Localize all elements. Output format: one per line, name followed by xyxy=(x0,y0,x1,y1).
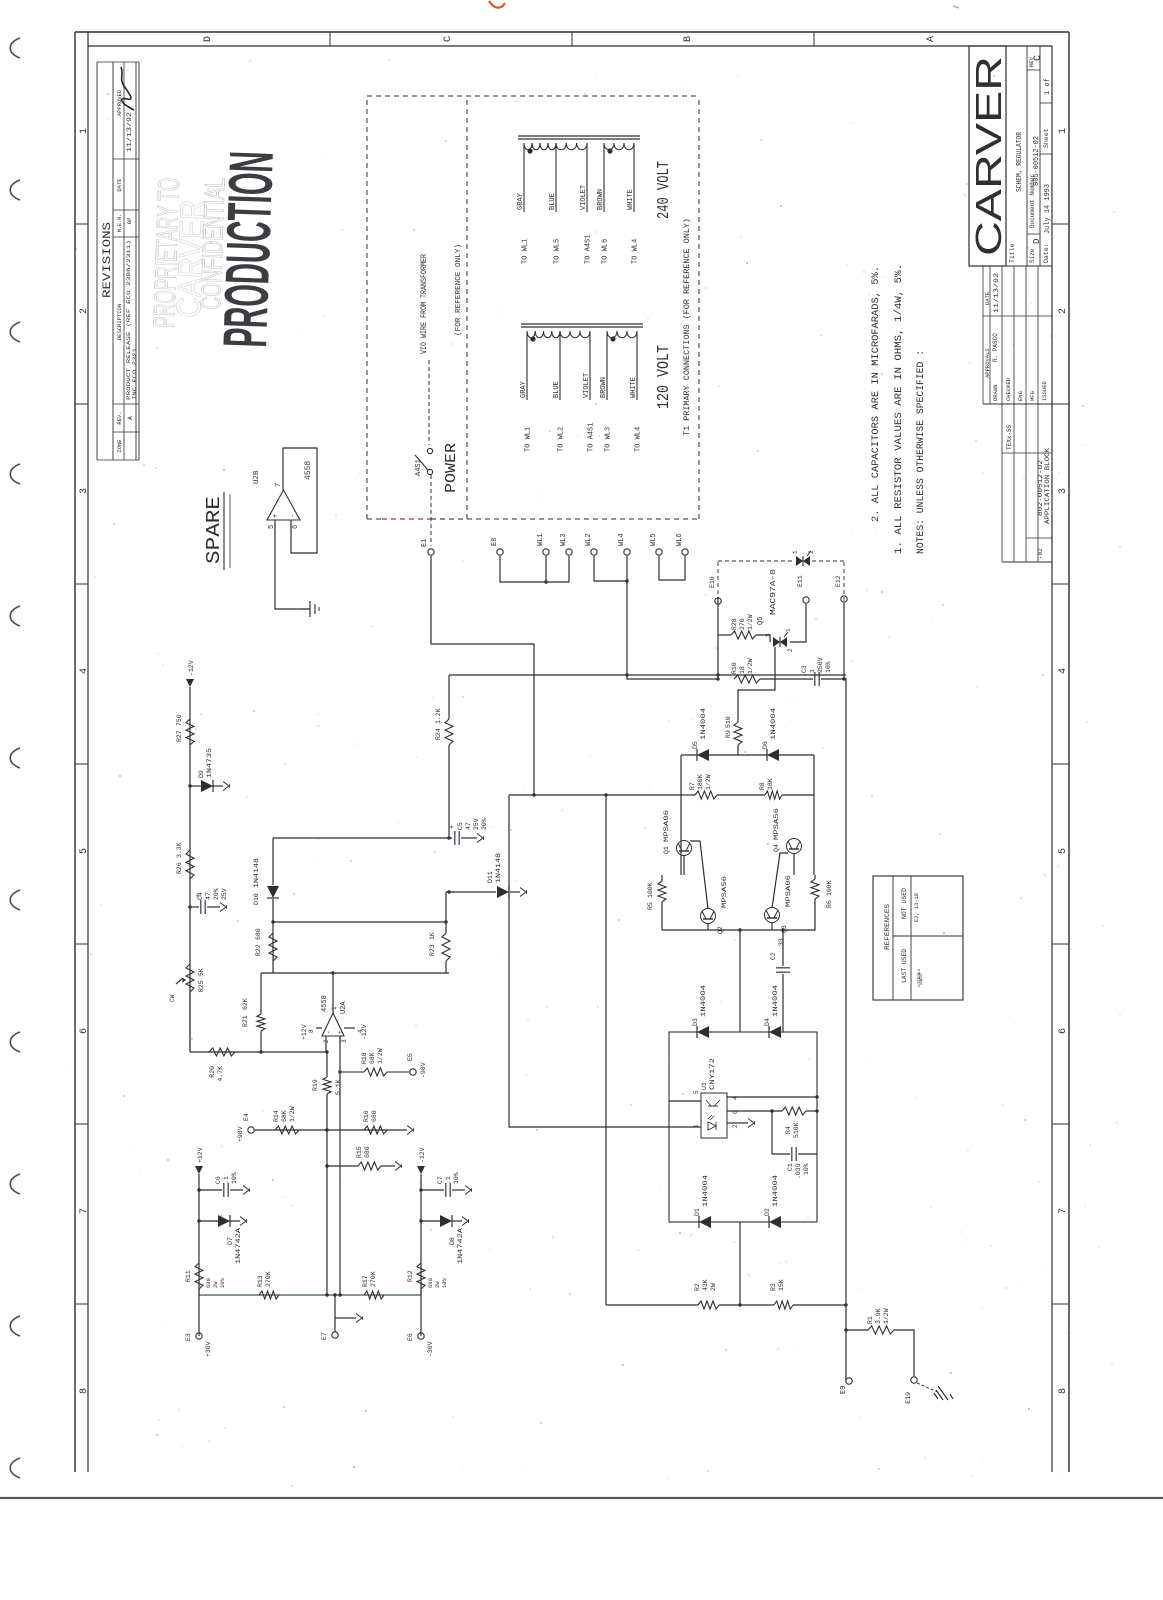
svg-text:1N4004: 1N4004 xyxy=(772,985,779,1017)
svg-text:REFERENCES: REFERENCES xyxy=(884,904,891,950)
svg-text:NOT USED: NOT USED xyxy=(901,888,908,919)
svg-text:D10: D10 xyxy=(253,893,260,905)
diode D5 1N4004 xyxy=(697,749,709,761)
svg-text:802-00512-02: 802-00512-02 xyxy=(1037,459,1044,516)
svg-text:T1 PRIMARY CONNECTIONS (FOR RE: T1 PRIMARY CONNECTIONS (FOR REFERENCE ON… xyxy=(683,218,692,436)
capacitor C4 47 20% 25V xyxy=(188,905,191,908)
svg-text:R21: R21 xyxy=(242,1015,249,1027)
svg-text:10%: 10% xyxy=(441,1277,448,1288)
wire bridge negative to R2 R3 node xyxy=(739,1222,741,1305)
svg-text:8: 8 xyxy=(1058,1388,1069,1394)
svg-text:47: 47 xyxy=(205,892,212,900)
svg-text:10%: 10% xyxy=(219,1277,226,1288)
svg-text:6: 6 xyxy=(1058,1028,1069,1034)
svg-text:1 of: 1 of xyxy=(1044,78,1052,95)
approved signature squiggle xyxy=(121,67,134,110)
svg-text:2W: 2W xyxy=(710,1283,717,1291)
wires transistor interconnect xyxy=(683,855,685,875)
svg-text:WHITE: WHITE xyxy=(627,189,635,210)
svg-text:E10: E10 xyxy=(709,576,716,588)
svg-text:1: 1 xyxy=(792,550,799,554)
svg-text:1: 1 xyxy=(1058,128,1069,134)
svg-text:R1: R1 xyxy=(867,1316,874,1324)
resistor R8 18K xyxy=(717,794,765,796)
svg-text:REVISIONS: REVISIONS xyxy=(102,222,114,298)
approvals block xyxy=(983,266,1052,404)
diode D4 1N4004 xyxy=(769,1026,781,1038)
svg-text:680: 680 xyxy=(364,1146,371,1158)
svg-text:5.1K: 5.1K xyxy=(335,1079,342,1095)
wire WL4 to R10 node xyxy=(627,581,718,679)
svg-text:1N4004: 1N4004 xyxy=(700,985,707,1017)
svg-text:APPLICATION BLOCK: APPLICATION BLOCK xyxy=(1044,448,1051,524)
svg-text:BLUE: BLUE xyxy=(549,193,557,210)
svg-text:R8: R8 xyxy=(759,782,766,790)
svg-text:MPSA56: MPSA56 xyxy=(773,808,780,840)
wire E12 bottom bus xyxy=(843,603,845,679)
zener D7 1N4742A xyxy=(197,1219,200,1222)
dashed wire from transformer note to switch xyxy=(428,360,430,445)
svg-text:R14: R14 xyxy=(273,1110,280,1122)
title block Date row xyxy=(1040,46,1052,266)
svg-text:U1: U1 xyxy=(701,1082,708,1090)
svg-text:U2B: U2B xyxy=(253,470,261,484)
svg-text:(FOR REFERENCE ONLY): (FOR REFERENCE ONLY) xyxy=(455,244,463,336)
terminal WL4 xyxy=(624,549,630,555)
terminal E9 xyxy=(846,1378,852,1384)
svg-text:REV.: REV. xyxy=(116,411,123,424)
svg-text:D8: D8 xyxy=(449,1237,456,1245)
svg-text:R3: R3 xyxy=(770,1283,777,1291)
svg-text:CARVER: CARVER xyxy=(968,56,1009,256)
svg-text:3.3K: 3.3K xyxy=(176,842,183,858)
svg-text:Title: Title xyxy=(1009,243,1016,263)
svg-text:1/2W: 1/2W xyxy=(747,658,754,674)
svg-text:C: C xyxy=(1033,55,1044,61)
svg-text:250V: 250V xyxy=(817,657,824,673)
wire pot to R20 top xyxy=(189,992,191,1052)
svg-text:7: 7 xyxy=(1058,1208,1069,1214)
resistor R16 680 xyxy=(364,1126,387,1134)
svg-text:47: 47 xyxy=(465,822,472,830)
resistor R9 510 xyxy=(737,745,739,755)
svg-text:C2: C2 xyxy=(770,952,777,960)
svg-text:2: 2 xyxy=(732,1124,739,1128)
transistor Q2 MPSA56 xyxy=(701,909,716,924)
resistor R1 3.9K 1/2W xyxy=(846,1329,868,1331)
svg-text:+: + xyxy=(272,514,280,518)
wire WL5 WL6 join xyxy=(659,556,685,580)
svg-text:APPROVALS: APPROVALS xyxy=(984,348,991,378)
wire phase detector feed xyxy=(509,794,681,796)
svg-text:6: 6 xyxy=(292,525,300,529)
application block xyxy=(1002,404,1052,562)
svg-text:TO WL1: TO WL1 xyxy=(525,427,533,452)
svg-text:510: 510 xyxy=(725,716,732,728)
row R11 R13 E7 R17 R12 main low rail xyxy=(199,1294,421,1296)
svg-text:WHITE: WHITE xyxy=(630,377,638,398)
svg-text:100K: 100K xyxy=(826,880,833,896)
svg-text:+: + xyxy=(337,1030,344,1034)
diode D2 1N4004 xyxy=(769,1216,781,1228)
svg-text:+30V: +30V xyxy=(205,1341,212,1357)
resistor R28 270 1/2W xyxy=(718,634,731,636)
svg-text:D: D xyxy=(1032,239,1042,244)
op-amp U2A 4558 xyxy=(321,995,348,1043)
resistor R13 270K xyxy=(259,1291,279,1299)
optocoupler U1 CNY172 xyxy=(693,1058,739,1138)
svg-text:MPSA06: MPSA06 xyxy=(663,810,670,842)
svg-text:E9: E9 xyxy=(840,1386,848,1394)
resistor R7 180K 1/2W xyxy=(681,794,695,796)
transistor Q3 MPSA06 xyxy=(765,908,780,923)
resistor R14 68K 1/2W xyxy=(275,1126,299,1134)
wire R22 R23 tie xyxy=(273,921,446,923)
dashed divider line xyxy=(466,96,468,519)
svg-text:MPSA56: MPSA56 xyxy=(721,876,728,908)
resistor R21 62K xyxy=(260,1031,262,1052)
svg-text:1: 1 xyxy=(79,128,90,134)
svg-text:3.9K: 3.9K xyxy=(875,1308,882,1324)
svg-text:.1: .1 xyxy=(223,1176,230,1184)
svg-text:GRAY: GRAY xyxy=(517,192,525,210)
svg-text:.33: .33 xyxy=(778,938,785,950)
svg-text:CW: CW xyxy=(169,994,176,1002)
terminal E7 with ground xyxy=(334,1295,336,1332)
svg-text:WL5: WL5 xyxy=(650,533,658,546)
resistor R12 680 2W 10% xyxy=(417,1263,425,1289)
title block CARVER logo box xyxy=(968,46,1009,266)
wire R20 R21 node column xyxy=(190,1051,327,1053)
sheet border right outer edge xyxy=(75,31,1069,33)
svg-text:62K: 62K xyxy=(242,998,249,1010)
svg-text:+12V: +12V xyxy=(301,1024,308,1040)
svg-text:E6: E6 xyxy=(407,1333,414,1341)
svg-text:2: 2 xyxy=(808,550,815,554)
resistor R20 4.7K xyxy=(209,1048,235,1056)
svg-text:R5: R5 xyxy=(647,902,654,910)
svg-text:10%: 10% xyxy=(231,1172,238,1184)
svg-text:LAST USED: LAST USED xyxy=(901,949,908,983)
svg-text:CHECKED: CHECKED xyxy=(1005,377,1012,401)
svg-text:180K: 180K xyxy=(697,774,704,790)
sheet border inner top edge xyxy=(87,32,89,1472)
svg-text:D6: D6 xyxy=(762,741,769,749)
svg-text:TO WL6: TO WL6 xyxy=(602,239,610,264)
svg-text:-98V: -98V xyxy=(420,1062,427,1078)
svg-text:A: A xyxy=(127,416,134,420)
svg-text:E19: E19 xyxy=(905,1392,912,1404)
transformer core xyxy=(518,138,640,140)
op-amp U2B spare 4558 xyxy=(253,448,317,553)
wire feedback node column xyxy=(261,972,449,974)
svg-text:PRODUCTION: PRODUCTION xyxy=(211,150,287,348)
sheet border bottom inner edge xyxy=(1051,46,1053,1472)
svg-text:1N4742A: 1N4742A xyxy=(235,1228,242,1264)
terminal E10 xyxy=(715,598,721,604)
svg-text:20%: 20% xyxy=(481,818,488,830)
svg-text:July 14 1993: July 14 1993 xyxy=(1044,184,1052,234)
svg-text:R17: R17 xyxy=(362,1275,369,1287)
svg-text:4: 4 xyxy=(79,668,90,674)
sheet border bottom outer edge xyxy=(1068,32,1070,1472)
svg-text:10%: 10% xyxy=(825,661,832,673)
svg-text:-30V: -30V xyxy=(427,1341,434,1357)
ground after R16 xyxy=(401,1129,407,1131)
svg-text:Date:: Date: xyxy=(1043,243,1050,263)
svg-text:Sheet: Sheet xyxy=(1043,128,1050,148)
svg-text:1/2W: 1/2W xyxy=(377,1048,384,1064)
capacitor C6 .1 10% xyxy=(197,1188,200,1191)
terminal E19 xyxy=(911,1377,917,1383)
terminal E5 -98V xyxy=(410,1069,416,1075)
svg-text:Q5: Q5 xyxy=(757,617,765,625)
wire E10 column xyxy=(717,597,719,679)
wire long run to U1 pin1 xyxy=(509,795,701,1127)
svg-text:R. PASCO: R. PASCO xyxy=(992,333,999,362)
svg-text:-12V: -12V xyxy=(188,660,195,676)
svg-text:VIO WIRE FROM TRANSFORMER: VIO WIRE FROM TRANSFORMER xyxy=(420,254,429,354)
terminal WL5 xyxy=(656,549,662,555)
triac Q5 MAC97A-8 xyxy=(773,637,780,647)
notes text block xyxy=(871,264,927,554)
svg-text:MAC97A-8: MAC97A-8 xyxy=(770,569,778,615)
svg-text:18K: 18K xyxy=(767,778,774,790)
wire non-inverting pin3 net xyxy=(339,1036,341,1042)
diode D9 1N4735 xyxy=(188,784,191,787)
svg-text:R23: R23 xyxy=(429,944,436,956)
svg-text:4558: 4558 xyxy=(321,995,329,1012)
wire top tie row xyxy=(272,932,274,934)
svg-text:R12: R12 xyxy=(407,1270,414,1282)
svg-text:1/2W: 1/2W xyxy=(705,774,712,790)
svg-text:1: 1 xyxy=(785,628,792,632)
transformer core xyxy=(521,326,643,328)
wire U2B pin5 to ground xyxy=(275,520,310,609)
transistor Q4 MPSA56 xyxy=(787,839,802,854)
wire E8 WL1 WL3 bus xyxy=(500,556,569,582)
dashed enclosure power switch and T1 connections xyxy=(367,96,699,519)
svg-text:WL3: WL3 xyxy=(560,533,568,546)
svg-text:R24: R24 xyxy=(435,728,442,740)
revisions table xyxy=(97,62,139,460)
svg-text:INC ECO 2321: INC ECO 2321 xyxy=(132,348,138,400)
svg-text:1N4742A: 1N4742A xyxy=(457,1228,464,1264)
svg-text:R22: R22 xyxy=(255,944,262,956)
svg-text:TO A4S1: TO A4S1 xyxy=(585,235,593,264)
svg-text:VIOLET: VIOLET xyxy=(583,373,591,398)
svg-text:C4: C4 xyxy=(197,892,204,900)
svg-text:4: 4 xyxy=(1058,668,1069,674)
terminal E1 and dashed feed xyxy=(430,475,432,546)
transformer windings xyxy=(527,331,535,338)
svg-text:4: 4 xyxy=(357,1029,364,1033)
-12V rail R12 column xyxy=(420,1174,422,1295)
svg-text:R25: R25 xyxy=(198,980,205,992)
svg-text:680: 680 xyxy=(427,1278,434,1288)
transformer windings xyxy=(524,143,532,150)
svg-text:-02: -02 xyxy=(1037,548,1044,559)
dashed box E10 E11 E12 xyxy=(718,561,844,601)
terminal E4 +98V xyxy=(248,1127,254,1133)
terminal E3 +30V xyxy=(198,1289,200,1336)
terminal E11 xyxy=(803,597,809,603)
terminal E12 xyxy=(841,596,847,602)
svg-text:WL2: WL2 xyxy=(585,533,593,546)
wire E1 feed down to phase detector row xyxy=(431,556,534,795)
sheet border outer top edge xyxy=(74,32,76,1472)
svg-text:TO WL1: TO WL1 xyxy=(522,239,530,264)
svg-text:R20: R20 xyxy=(209,1066,216,1078)
svg-text:C: C xyxy=(443,36,454,42)
svg-text:11/13/92: 11/13/92 xyxy=(993,272,1000,313)
svg-text:18: 18 xyxy=(739,666,746,674)
svg-text:68K: 68K xyxy=(369,1052,376,1064)
svg-text:MPSA06: MPSA06 xyxy=(785,875,792,907)
svg-text:7: 7 xyxy=(79,1208,90,1214)
svg-text:120 VOLT: 120 VOLT xyxy=(655,345,674,409)
svg-text:680: 680 xyxy=(371,1110,378,1122)
svg-text:10%: 10% xyxy=(803,1163,810,1175)
svg-text:E3: E3 xyxy=(185,1333,192,1341)
svg-text:TO WL5: TO WL5 xyxy=(554,239,562,264)
capacitor C3 1 250V 10% xyxy=(760,678,813,680)
resistor R17 270K xyxy=(364,1291,384,1299)
svg-text:5K: 5K xyxy=(198,968,205,976)
svg-text:1/2W: 1/2W xyxy=(289,1106,296,1122)
svg-text:1N4148: 1N4148 xyxy=(495,853,502,883)
svg-text:D11: D11 xyxy=(487,871,494,883)
svg-text:ENG: ENG xyxy=(1017,391,1024,401)
diode D3 1N4004 xyxy=(697,1026,709,1038)
svg-text:270K: 270K xyxy=(370,1271,377,1287)
svg-text:TO WL4: TO WL4 xyxy=(632,239,640,264)
svg-text:Q1: Q1 xyxy=(663,846,670,854)
references table xyxy=(873,876,963,1000)
transistor Q1 MPSA06 xyxy=(677,841,692,856)
svg-text:1N4004: 1N4004 xyxy=(700,708,707,740)
svg-text:WL4: WL4 xyxy=(917,969,921,975)
svg-text:3: 3 xyxy=(79,488,90,494)
svg-text:-12V: -12V xyxy=(419,1147,426,1163)
svg-text:C6: C6 xyxy=(215,1176,222,1184)
svg-text:-: - xyxy=(325,1030,332,1034)
svg-text:1N4004: 1N4004 xyxy=(772,1175,779,1207)
svg-text:1: 1 xyxy=(809,669,816,673)
terminal WL6 xyxy=(682,549,688,555)
svg-text:270: 270 xyxy=(739,618,746,630)
svg-text:DRAWN: DRAWN xyxy=(992,384,999,401)
svg-text:R4: R4 xyxy=(785,1126,792,1134)
svg-text:270K: 270K xyxy=(265,1271,272,1287)
terminal WL3 xyxy=(566,549,572,555)
resistor R2 43K 2W xyxy=(606,1304,698,1306)
svg-text:DATE: DATE xyxy=(984,291,991,305)
svg-text:C7: C7 xyxy=(437,1176,444,1184)
svg-text:1N4004: 1N4004 xyxy=(770,708,777,740)
capacitor C7 .1 10% xyxy=(419,1188,422,1191)
svg-text:2: 2 xyxy=(79,308,90,314)
diode D1 1N4004 xyxy=(699,1216,711,1228)
svg-text:E8: E8 xyxy=(491,538,499,546)
svg-text:25V: 25V xyxy=(221,888,228,900)
resistor R18 68K 1/2W to E5 xyxy=(340,1071,364,1073)
svg-text:BROWN: BROWN xyxy=(600,377,608,398)
svg-text:D9: D9 xyxy=(198,770,205,778)
svg-text:Size: Size xyxy=(1029,248,1036,263)
svg-text:A: A xyxy=(926,36,937,42)
junction dots bridge xyxy=(815,1095,818,1098)
svg-text:C3: C3 xyxy=(801,665,808,673)
svg-text:E4: E4 xyxy=(243,1113,250,1121)
svg-text:1K: 1K xyxy=(429,932,436,940)
svg-text:68K: 68K xyxy=(281,1110,288,1122)
svg-text:D4: D4 xyxy=(764,1018,771,1026)
U2A power pins +12V -12V xyxy=(316,1027,322,1029)
svg-text:5: 5 xyxy=(79,848,90,854)
svg-text:BLUE: BLUE xyxy=(553,381,561,398)
svg-text:A4S1: A4S1 xyxy=(415,459,423,476)
diode D6 1N4004 xyxy=(767,749,779,761)
svg-text:2: 2 xyxy=(1058,308,1069,314)
power switch A4S1 xyxy=(415,448,433,476)
terminal WL2 xyxy=(591,549,597,555)
diode D11 1N4148 xyxy=(446,891,496,893)
svg-text:R28: R28 xyxy=(731,618,738,630)
svg-text:SCHEM, REGULATOR: SCHEM, REGULATOR xyxy=(1016,131,1024,192)
resistor R19 5.1K xyxy=(325,1036,327,1052)
wire cluster top side xyxy=(680,755,682,875)
svg-text:10%: 10% xyxy=(453,1172,460,1184)
svg-text:R7: R7 xyxy=(689,782,696,790)
svg-text:VIOLET: VIOLET xyxy=(580,185,588,210)
svg-text:-: - xyxy=(290,514,298,518)
svg-text:C5: C5 xyxy=(457,822,464,830)
svg-text:8: 8 xyxy=(308,1029,315,1033)
svg-text:E7: E7 xyxy=(321,1332,328,1340)
svg-text:1. ALL RESISTOR VALUES ARE IN: 1. ALL RESISTOR VALUES ARE IN OHMS, 1/4W… xyxy=(893,264,905,554)
wire cluster to bridge mid xyxy=(739,930,741,1032)
svg-text:D2: D2 xyxy=(764,1208,771,1216)
svg-text:Q4: Q4 xyxy=(773,844,780,852)
svg-text:BP: BP xyxy=(126,217,133,224)
label -12V rail xyxy=(186,679,194,687)
resistor R24 1.2K xyxy=(448,745,450,838)
svg-text:2. ALL CAPACITORS ARE IN MICRO: 2. ALL CAPACITORS ARE IN MICROFARADS, 5%… xyxy=(871,266,882,522)
svg-text:1: 1 xyxy=(331,1006,338,1010)
svg-text:4.7K: 4.7K xyxy=(217,1066,224,1082)
svg-text:+98V: +98V xyxy=(237,1126,244,1142)
title block Title row xyxy=(1006,46,1052,266)
capacitor C5 47 25V 20% xyxy=(273,837,449,839)
wire cluster bottom side xyxy=(813,755,815,875)
wire U1 pin4 to bridge bottom xyxy=(727,1096,817,1098)
svg-text:.1: .1 xyxy=(445,1176,452,1184)
sheet border right inner edge xyxy=(88,45,1052,47)
resistor R3 15K xyxy=(719,1304,774,1306)
zener D8 1N4742A xyxy=(419,1219,422,1222)
resistor R4 510K xyxy=(727,1110,782,1112)
resistor R26 3.3K xyxy=(186,850,194,879)
wire D5 D6 rail xyxy=(681,754,814,756)
svg-text:R11: R11 xyxy=(185,1270,192,1282)
svg-text:MFG: MFG xyxy=(1029,391,1036,401)
transformer leads and labels xyxy=(523,143,525,212)
svg-text:C1: C1 xyxy=(787,1163,794,1171)
svg-text:43K: 43K xyxy=(702,1279,709,1291)
paper cut edge line xyxy=(0,1497,1163,1499)
svg-text:8: 8 xyxy=(79,1388,90,1394)
